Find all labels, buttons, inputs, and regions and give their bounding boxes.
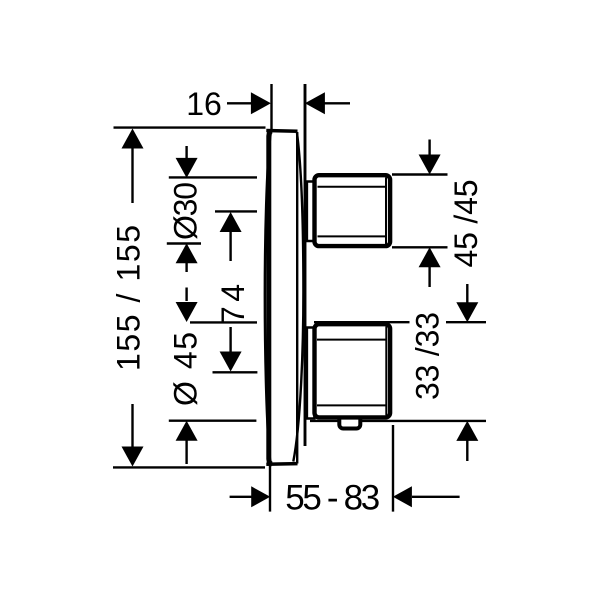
top handle (shut-off) outer (315, 175, 391, 246)
svg-text:33 /33: 33 /33 (410, 312, 446, 400)
dim Ø30: bottom tail dash (185, 288, 187, 302)
svg-text:16: 16 (186, 86, 222, 122)
escutcheon plate back arc (293, 133, 303, 462)
dim Ø30: down arrow (176, 158, 198, 178)
dim 74: lower tail (229, 327, 231, 353)
bottom handle inner line upper (317, 339, 386, 341)
bottom handle (thermostat) outer (315, 324, 391, 417)
dim 155/155: down arrow (122, 447, 144, 467)
dim 55-83: right extension line (392, 425, 394, 512)
escutcheon plate front arc (265, 132, 271, 463)
dim Ø45: bottom tail (185, 440, 187, 465)
top sleeve (307, 182, 315, 242)
dim 45/45: bottom extension line (392, 246, 448, 248)
dim 74: top extension line (215, 210, 257, 212)
escutcheon plate front face straight edge (269, 131, 272, 464)
dim 33/33: up arrow (456, 421, 478, 441)
dim 45/45: top extension line (392, 173, 448, 175)
dim 45/45: down arrow (419, 155, 441, 175)
dim 55-83: right-pointing arrow (251, 486, 270, 507)
extension line 33/33 bottom (right of plate) (310, 420, 486, 422)
dim 74: bottom extension line (213, 371, 258, 373)
dim Ø30: top extension line (169, 176, 257, 178)
svg-text:Ø 45: Ø 45 (168, 332, 204, 406)
dim 155/155: dim line lower segment (131, 404, 133, 448)
top handle inner line lower (318, 235, 387, 237)
top handle inner line upper (318, 186, 387, 188)
tab below bottom handle (339, 413, 360, 429)
dim Ø30: bottom tail (185, 262, 187, 272)
dim 16: right-pointing arrow (251, 92, 271, 114)
wall line (304, 84, 307, 446)
bottom handle inner vertical rim (385, 326, 387, 415)
dim Ø45: down arrow (176, 302, 198, 322)
dim 155/155: bottom extension line (113, 466, 265, 468)
dim Ø45: top extension line (190, 321, 257, 323)
bottom handle inner line lower (317, 404, 386, 406)
dim 33/33: top tail (466, 284, 468, 304)
dim 155/155: top extension line (114, 126, 266, 128)
dim Ø30: up arrow (176, 243, 198, 263)
escutcheon plate back edge (296, 132, 298, 464)
dim 155/155: up arrow (122, 129, 144, 149)
dim 33/33: top extension line left segment (314, 321, 410, 323)
dim 55-83: left extension line (269, 463, 271, 512)
dim 33/33: down arrow (456, 302, 478, 322)
svg-text:55 - 83: 55 - 83 (285, 479, 380, 518)
svg-text:45 /45: 45 /45 (448, 180, 484, 268)
dim 45/45: top tail (428, 140, 430, 157)
dim 16: right dim line (325, 102, 351, 104)
dim 55-83: left dim line (230, 496, 253, 498)
svg-text:155 / 155: 155 / 155 (111, 225, 147, 371)
dim 33/33: top extension line right segment (446, 321, 486, 323)
dim 74: upper tail (229, 231, 231, 261)
dim Ø45: bottom extension line (169, 420, 257, 422)
dim 55-83: left-pointing arrow (393, 486, 412, 507)
dim 45/45: bottom tail (428, 266, 430, 287)
dim 45/45: up arrow (419, 247, 441, 267)
top handle inner vertical rim (385, 178, 387, 245)
dim 74: down arrow (220, 352, 242, 372)
escutcheon plate top edge (266, 129, 297, 133)
dim 74: up arrow (220, 212, 242, 232)
dim 16: left-pointing arrow (305, 92, 325, 114)
svg-text:Ø30: Ø30 (168, 182, 204, 240)
dim 33/33: bottom tail (466, 440, 468, 462)
dim 55-83: right dim line (412, 496, 460, 498)
dim 16: left extension line (270, 84, 272, 129)
dim 16: left dim line (227, 102, 252, 104)
dim Ø30: bottom extension line (167, 242, 201, 244)
escutcheon plate bottom edge (266, 462, 297, 466)
dim Ø30: top tail (185, 146, 187, 159)
dim 155/155: dim line upper segment (131, 147, 133, 203)
dim Ø45: up arrow (176, 421, 198, 441)
bottom sleeve (307, 328, 315, 419)
